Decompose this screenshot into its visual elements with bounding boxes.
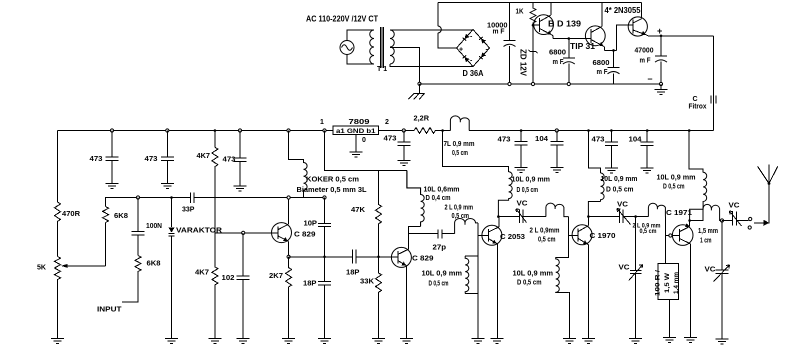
svg-text:10L 0,6mm: 10L 0,6mm (424, 187, 460, 194)
junction VC shunt node (634, 215, 637, 218)
junction collector/tuning line (287, 196, 290, 199)
diode arrow top-right edge (479, 37, 486, 44)
svg-text:1K: 1K (516, 9, 524, 16)
wire emitter Q6 to ground (496, 248, 498, 339)
wire collector Q7 up (587, 217, 589, 226)
junction collector Q7 node (587, 215, 590, 218)
wire antenna feed (754, 184, 769, 223)
regulator U1 7809 (333, 126, 379, 135)
junction negative rail end (659, 82, 662, 85)
svg-text:18P: 18P (346, 270, 360, 277)
transistor Q3 4* 2N3055 (628, 3, 648, 36)
junction antenna VC node (720, 219, 723, 222)
inductor 10L 0,9mm D 0,5cm (base of Q7) (556, 257, 569, 292)
junction 6800 mF (2) (612, 49, 615, 52)
svg-text:VC: VC (705, 267, 716, 274)
svg-text:D 0,5 cm: D 0,5 cm (517, 280, 542, 287)
wire main rail to 7L coil (435, 130, 450, 132)
svg-text:47K: 47K (351, 207, 365, 214)
wire 12V tap down to 10L (collector load Q6) (443, 131, 509, 172)
transistor Q4 C 829 (oscillator) (272, 223, 292, 243)
resistor 4K7 no.1 (212, 131, 218, 233)
svg-text:2 L 0,9mm: 2 L 0,9mm (530, 228, 560, 235)
svg-text:100 R /: 100 R / (656, 270, 662, 296)
wire main rail (regulator to 2.2R) (379, 130, 415, 132)
ground 104 no.1 (550, 168, 563, 173)
junction rail/473 no.1 (110, 129, 113, 132)
svg-text:D 0,5 cm: D 0,5 cm (429, 281, 449, 288)
capacitor 473 no.2 (161, 131, 174, 184)
ground emitter Q7 (582, 339, 595, 344)
ground varactor (165, 339, 178, 344)
inductor 10L 0,6mm D 0,4cm (407, 171, 424, 227)
svg-text:10L 0,9 mm: 10L 0,9 mm (512, 177, 551, 184)
capacitor 104 no.2 (641, 131, 654, 169)
svg-text:Fitrox: Fitrox (689, 104, 707, 111)
svg-text:10L 0,9 mm: 10L 0,9 mm (513, 271, 554, 278)
wire emitter Q7 to ground (587, 245, 589, 339)
svg-text:104: 104 (629, 137, 642, 144)
capacitor 473 no.4 (515, 131, 528, 168)
svg-text:47000: 47000 (635, 48, 654, 55)
svg-text:6800: 6800 (593, 60, 610, 67)
potentiometer 5K (55, 257, 106, 339)
svg-text:D 0,5 cm: D 0,5 cm (606, 187, 634, 194)
wire AC source to transformer primary (347, 30, 374, 64)
svg-text:7L 0,9 mm: 7L 0,9 mm (444, 141, 475, 148)
svg-text:–: – (648, 74, 653, 84)
junction collector Q8 node (688, 219, 691, 222)
svg-text:473: 473 (384, 136, 397, 143)
junction rail/104 no.1 (555, 129, 558, 132)
ground 100R (663, 337, 676, 342)
svg-text:AC 110-220V /12V CT: AC 110-220V /12V CT (306, 15, 378, 24)
ground VC antenna (716, 339, 729, 344)
svg-text:+: + (459, 47, 463, 54)
inductor KOKER 0,5cm (289, 131, 308, 198)
wire positive: top rail down to bridge + corner (hops over AC wire) (438, 3, 457, 48)
antenna (758, 165, 778, 185)
diode arrow bottom-right edge (479, 52, 486, 59)
svg-text:6K8: 6K8 (114, 213, 128, 220)
junction rail/473 no.2 (166, 129, 169, 132)
bridge rectifier D 36A (457, 30, 490, 67)
svg-text:0,5 cm: 0,5 cm (640, 228, 657, 235)
ground PSU (655, 84, 668, 95)
wire collector Q5 up (408, 226, 420, 249)
junction 6800 mF cap (568, 37, 571, 40)
inductor 10L 0,9mm D 0,5cm (base of Q6) (465, 256, 469, 294)
svg-text:VC: VC (619, 265, 630, 272)
wire base tap Q6 (478, 235, 489, 237)
capacitor 473 no.3 (234, 131, 247, 187)
svg-text:0: 0 (362, 137, 366, 144)
ground 33K (372, 339, 385, 344)
svg-text:D 0,4 cm: D 0,4 cm (426, 195, 451, 202)
svg-text:6800: 6800 (549, 50, 566, 57)
wire 12V tap down to 10L (collector load Q7) (589, 131, 601, 174)
capacitor 33P (series in tuning line) (190, 193, 194, 203)
svg-text:0,5 cm: 0,5 cm (538, 237, 556, 244)
junction base Q8 / 100R (669, 234, 672, 237)
resistor 100R 1,5W (box) (656, 264, 681, 300)
ground 4K7 no.2 (208, 339, 221, 344)
ground emitter Q5 (400, 339, 413, 344)
svg-text:6K8: 6K8 (147, 261, 161, 268)
svg-text:INPUT: INPUT (97, 307, 122, 314)
svg-text:Biameter 0,5 mm 3L: Biameter 0,5 mm 3L (297, 187, 368, 194)
junction rail / Q8 supply tap (688, 129, 691, 132)
svg-text:+: + (657, 26, 662, 36)
ground 473 no.4 (515, 168, 528, 173)
junction varactor on tuning line (170, 196, 173, 199)
inductor 7L 0,9mm 0,5cm (450, 116, 469, 131)
bottom negative rail of PSU (420, 83, 662, 85)
svg-text:ZD 12V: ZD 12V (519, 49, 528, 77)
svg-text:18P: 18P (303, 281, 317, 288)
svg-text:10P: 10P (304, 221, 318, 228)
svg-text:2K7: 2K7 (269, 273, 283, 280)
inductor 10L 0,9mm D 0,5cm (collector Q8) (690, 172, 707, 220)
wire 9V feed line (325, 131, 407, 171)
junction tuning line end / 10P (323, 196, 326, 199)
ground 2L/10L network (472, 339, 485, 344)
ground 473 no.2 (161, 183, 174, 188)
svg-text:C: C (693, 96, 698, 103)
svg-text:473: 473 (592, 137, 605, 144)
junction cap 6800 / negative rail (567, 82, 570, 85)
wire second rail (tuning line) (106, 198, 325, 266)
svg-text:a1 GND b1: a1 GND b1 (336, 128, 376, 135)
capacitor 100N (132, 198, 145, 256)
junction center tap / negative rail (418, 82, 421, 85)
svg-text:C 829: C 829 (294, 232, 316, 239)
capacitor 18P (shunt) (318, 257, 331, 339)
svg-text:473: 473 (223, 157, 236, 164)
svg-text:102: 102 (222, 275, 235, 282)
transistor Q8 C 1971 (672, 223, 693, 245)
capacitor 27p (series) (438, 229, 442, 238)
capacitor 102 (237, 233, 250, 339)
svg-text:470R: 470R (62, 211, 80, 218)
variable capacitor VC (shunt at antenna) (714, 221, 730, 340)
ground 5K (51, 339, 64, 344)
svg-text:1,4 mm: 1,4 mm (674, 272, 680, 294)
svg-text:m F: m F (597, 69, 609, 76)
variable capacitor VC (shunt after Q7) (629, 217, 643, 339)
variable capacitor VC (series to antenna) (722, 211, 749, 226)
svg-text:VC: VC (517, 201, 528, 208)
svg-text:m F: m F (493, 29, 506, 36)
varactor diode (168, 198, 174, 339)
connector dots (749, 217, 752, 220)
resistor 2,2R (414, 128, 435, 134)
ground 104 no.2 (641, 168, 654, 173)
transformer T1 primary winding (370, 30, 374, 64)
svg-text:TIP 31: TIP 31 (570, 42, 596, 51)
svg-text:10L 0,9 mm: 10L 0,9 mm (657, 175, 696, 182)
junction 1K / zener / base BD139 (532, 24, 535, 27)
ground 102 (237, 339, 250, 344)
svg-text:C 1971: C 1971 (666, 210, 692, 217)
junction rail / KOKER coil (287, 129, 290, 132)
wire emitter line to second stage (289, 256, 399, 258)
inductor 2L 0,9mm 0,5cm no.2 (546, 203, 569, 216)
svg-text:473: 473 (145, 156, 158, 163)
svg-text:D 36A: D 36A (463, 69, 484, 78)
wire BD139 emitter to TIP31 base (553, 38, 591, 40)
svg-text:2: 2 (385, 119, 389, 126)
wire collector C829 up to tuning line (288, 198, 290, 225)
feed-through capacitor C Fitrox (711, 96, 716, 104)
svg-text:1: 1 (320, 119, 324, 126)
diode arrow bottom-left edge (463, 55, 470, 62)
transistor Q1 BD 139 (533, 3, 553, 39)
svg-text:33K: 33K (360, 279, 374, 286)
svg-text:473: 473 (498, 137, 511, 144)
svg-text:10L 0,9 mm: 10L 0,9 mm (422, 271, 463, 278)
junction rail/473 no.3 (238, 129, 241, 132)
capacitor 47000 mF (655, 36, 667, 84)
svg-text:1,5 mm: 1,5 mm (698, 228, 718, 235)
wire 100R to ground (668, 300, 670, 338)
capacitor 10000 mF (504, 3, 516, 84)
svg-text:10L 0,9 mm: 10L 0,9 mm (601, 176, 638, 183)
ground 7809 (350, 152, 363, 157)
wire 2L feed down through base tap (465, 223, 478, 339)
svg-text:4K7: 4K7 (197, 153, 211, 160)
inductor 2L 0,9mm 0,5cm no.3 (648, 203, 665, 216)
svg-text:473: 473 (90, 156, 103, 163)
svg-text:7809: 7809 (349, 119, 370, 126)
transistor Q6 C 2053 (482, 225, 502, 248)
ground 473 no.3 (234, 186, 247, 191)
wire 27p to 2L coil (442, 233, 455, 235)
zener diode ZD 12V (529, 25, 538, 84)
capacitor 6800 mF (1) (563, 39, 575, 85)
junction 2.2R / 7L / supply tap (441, 129, 444, 132)
transistor Q5 C 829 (buffer) (391, 247, 411, 267)
junction rail/473 no.4 (520, 129, 523, 132)
svg-text:D 0,5 cm: D 0,5 cm (663, 184, 685, 191)
wire emitter Q5 to ground (406, 266, 408, 339)
svg-text:5K: 5K (37, 265, 46, 272)
inductor 10L 0,9mm D 0,5cm (collector Q6) (498, 172, 512, 217)
wire emitter Q8 to ground (690, 244, 692, 337)
svg-text:0,5 cm: 0,5 cm (452, 213, 470, 220)
svg-text:VC: VC (729, 203, 740, 210)
wire to 2L no.3 (636, 216, 649, 218)
ground 473 no.5 (605, 168, 618, 173)
svg-text:C 1970: C 1970 (590, 233, 616, 240)
variable capacitor VC (series, collector Q7) (588, 209, 635, 225)
capacitor 104 no.1 (550, 131, 563, 168)
junction cap 10000 / negative rail (508, 82, 511, 85)
junction zener / negative rail (531, 82, 534, 85)
wire secondary bottom to bridge AC bottom corner (390, 64, 473, 67)
resistor 2K7 (286, 257, 292, 339)
svg-text:1,5 W: 1,5 W (665, 273, 671, 293)
svg-text:C 2053: C 2053 (500, 234, 525, 241)
junction rail/4K7 no.1 (214, 129, 217, 132)
junction 10P/18P column (323, 255, 326, 258)
resistor 47K (376, 171, 382, 257)
ground 18P (318, 339, 331, 344)
ground emitter Q8 (684, 337, 697, 342)
svg-text:m F: m F (640, 58, 652, 65)
svg-text:KOKER 0,5 cm: KOKER 0,5 cm (306, 177, 359, 184)
resistor 6K8 no.2 (122, 256, 141, 302)
inductor 10L 0,9mm D 0,5cm (collector Q7) (588, 173, 604, 217)
capacitor 473 no.1 (106, 131, 119, 184)
svg-text:1 cm: 1 cm (700, 238, 712, 245)
wire 7809 GND pin (355, 135, 357, 153)
ground 473 no.1 (106, 183, 119, 188)
wire emitter C829 down (288, 242, 290, 257)
junction rail / Q7 supply tap (587, 129, 590, 132)
svg-text:m F: m F (553, 59, 565, 66)
svg-text:VC: VC (617, 202, 628, 209)
top positive rail of PSU (438, 2, 642, 4)
svg-text:0,5 cm: 0,5 cm (452, 150, 468, 157)
capacitor 10P (318, 198, 331, 257)
svg-text:2 L 0,9 mm: 2 L 0,9 mm (445, 205, 474, 212)
inductor 2L 0,9mm 0,5cm no.1 (455, 218, 478, 233)
svg-text:2,2R: 2,2R (414, 116, 430, 123)
transformer T1 core (381, 27, 384, 68)
wire PSU output down to main rail (713, 36, 715, 131)
wire 2L no.3 down to base Q8 and 100R box (665, 217, 679, 264)
capacitor 473 (at regulator output) (397, 131, 410, 161)
diode arrow top-left edge (463, 34, 470, 41)
svg-text:104: 104 (535, 136, 548, 143)
junction emitter node (287, 255, 290, 258)
wire main rail (12V side) (469, 130, 713, 132)
svg-text:4* 2N3055: 4* 2N3055 (605, 6, 642, 15)
svg-text:27p: 27p (433, 245, 447, 252)
capacitor 473 no.5 (605, 131, 618, 169)
junction 7809 output / 473 cap (402, 129, 405, 132)
ground emitter Q6 (491, 339, 504, 344)
transistor Q7 C 1970 (572, 225, 592, 245)
svg-text:100N: 100N (146, 223, 162, 230)
junction rail/104 no.2 (646, 129, 649, 132)
svg-text:D 0,5 cm: D 0,5 cm (517, 187, 539, 194)
junction collector Q6 node (497, 215, 500, 218)
junction 47K/33K on base line (377, 255, 380, 258)
svg-text:C 829: C 829 (412, 256, 434, 263)
wire TIP31 emitter to 2N3055 base (605, 25, 633, 50)
wire collector Q8 up (689, 221, 691, 227)
inductor 4L 1,5mm 1cm (690, 204, 722, 220)
junction 102 (242, 231, 245, 234)
resistor 33K (376, 257, 382, 339)
resistor 1K (530, 3, 536, 26)
svg-text:4K7: 4K7 (195, 270, 209, 277)
transformer T1 secondary winding (390, 30, 394, 64)
capacitor 6800 mF (2) (608, 50, 620, 84)
wire varactor bias line (215, 232, 278, 234)
ground 2K7 (282, 339, 295, 344)
junction 100N on tuning line (136, 196, 139, 199)
resistor 6K8 no.1 (103, 207, 109, 223)
wire collector Q5 to 27p (408, 233, 438, 235)
ground VC shunt (629, 339, 642, 344)
wire secondary center tap to ground (390, 48, 420, 84)
resistor 4K7 no.2 (212, 233, 218, 339)
chassis ground (408, 84, 424, 100)
junction 47000 mF (660, 35, 663, 38)
wire 2L feed down through base tap Q7 (556, 217, 579, 339)
svg-text:33P: 33P (182, 207, 195, 214)
wire collector Q6 up (497, 217, 500, 227)
junction 7809 input (323, 129, 326, 132)
capacitor 18P (series) (352, 250, 356, 264)
svg-text:T 1: T 1 (377, 66, 387, 73)
resistor 470R (55, 131, 61, 257)
variable capacitor VC (series, collector Q6) (498, 209, 546, 223)
transistor Q2 TIP 31 (585, 3, 605, 51)
ground 473 (397, 160, 410, 165)
wire 12V tap down to 10L (collector load Q8) (689, 131, 703, 173)
svg-text:B D 139: B D 139 (548, 20, 582, 29)
junction rail/473 no.5 (610, 129, 613, 132)
ground 10L base Q7 (563, 339, 576, 344)
wire main rail (9V side) (58, 130, 334, 132)
wire secondary top to bridge AC top corner (390, 29, 473, 32)
AC source V1 (340, 41, 354, 55)
wire 2N3055 emitter to output (648, 35, 714, 37)
